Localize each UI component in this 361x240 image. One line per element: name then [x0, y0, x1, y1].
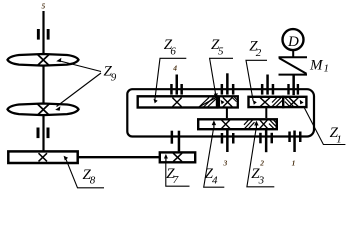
X1 in lower block	[221, 119, 231, 129]
svg-text:D: D	[287, 34, 299, 50]
wire R2 down to lower block	[226, 108, 228, 118]
svg-text:2: 2	[256, 47, 262, 59]
arrowhead in R3 (Z2 target)	[253, 100, 257, 105]
wire motor stub	[292, 51, 294, 58]
svg-text:9: 9	[111, 72, 117, 84]
coupling on shaft 5 upper	[37, 29, 50, 40]
arrowhead in Z8	[64, 156, 69, 161]
pulley/gear Z9 lower ellipse	[8, 104, 79, 116]
svg-text:7: 7	[173, 174, 179, 186]
arrowhead in R2	[221, 100, 225, 104]
svg-text:6: 6	[170, 45, 176, 57]
svg-text:8: 8	[90, 175, 96, 187]
arrowhead in R4 (Z1 target)	[300, 100, 304, 105]
X in R3	[260, 98, 270, 107]
gear block R2 rectangle	[219, 96, 238, 107]
wire R3 down to lower block	[265, 108, 267, 118]
gear Z7 rectangle	[160, 152, 195, 162]
gear group G4 motor shaft	[287, 76, 299, 96]
hatch right in lower block	[269, 119, 276, 129]
hatch marks in R2 corner	[232, 97, 237, 102]
svg-text:2: 2	[259, 159, 264, 168]
X mark in Z8	[39, 153, 48, 161]
leader Z7	[166, 162, 190, 186]
gear group H3 below lower line	[288, 131, 301, 153]
leader Z9 to upper ellipse	[58, 61, 101, 72]
leader Z3	[247, 128, 274, 187]
leader Z6	[155, 58, 186, 99]
arrowhead in lower block (Z3 target)	[254, 121, 258, 126]
gear block R3 rectangle	[249, 97, 284, 107]
leader Z9 to lower ellipse	[57, 73, 102, 107]
svg-text:1: 1	[336, 133, 342, 145]
gear group H2 below lower block	[259, 130, 273, 152]
arrowhead in R1 (Z6 target)	[154, 99, 158, 104]
hatch in R3	[272, 97, 283, 107]
gear group G2 on shaft 4	[221, 73, 235, 94]
X2 in lower block	[259, 119, 268, 129]
X mark lower ellipse	[37, 104, 49, 115]
svg-text:3: 3	[258, 174, 265, 186]
svg-text:5: 5	[42, 2, 46, 11]
svg-text:5: 5	[218, 45, 224, 57]
arrowhead in lower block (Z4 target)	[212, 120, 216, 125]
motor D circle	[283, 29, 304, 50]
hatch in lower block	[244, 119, 255, 129]
svg-text:1: 1	[292, 159, 296, 168]
loop frame shaft 4 / return line rounded rectangle	[127, 89, 314, 136]
svg-text:1: 1	[324, 63, 330, 75]
gear group G3 on shaft 4	[261, 75, 274, 95]
X in R2	[223, 97, 233, 107]
pulley/gear Z9 upper ellipse	[8, 54, 79, 66]
coupling on lower line	[171, 131, 181, 152]
shaft 5 vertical line	[42, 11, 44, 152]
gear Z8 rectangle	[8, 151, 77, 163]
gear group H1 below lower block	[221, 130, 235, 152]
svg-text:3: 3	[223, 158, 228, 167]
arrowhead in Z7	[164, 154, 168, 159]
hatch in R1	[199, 97, 217, 107]
gear block R1 rectangle	[138, 96, 217, 107]
hatch in R4	[285, 97, 296, 107]
arrowhead in lower ellipse	[55, 106, 60, 110]
X mark upper ellipse	[37, 54, 49, 65]
coupling M1 zigzag	[279, 57, 308, 74]
X mark in Z7	[173, 153, 182, 161]
svg-text:M: M	[309, 58, 324, 74]
gear group G1 on shaft 4	[170, 75, 183, 95]
wire bottom shaft line Z8 to Z7	[78, 156, 160, 158]
leader Z1	[304, 107, 346, 145]
leader Z8	[66, 159, 104, 188]
coupling on shaft 5 lower	[37, 128, 50, 139]
leader Z5	[210, 58, 233, 96]
gear block R4 rectangle	[283, 97, 306, 107]
leader Z4	[204, 128, 225, 187]
leader Z2	[246, 60, 267, 101]
X in R1	[172, 98, 181, 107]
arrowhead in upper ellipse	[56, 58, 61, 62]
svg-text:4: 4	[172, 64, 177, 73]
svg-text:4: 4	[212, 174, 218, 186]
lower gear block rectangle Z4 Z3	[198, 119, 277, 129]
X in R4	[289, 98, 298, 107]
